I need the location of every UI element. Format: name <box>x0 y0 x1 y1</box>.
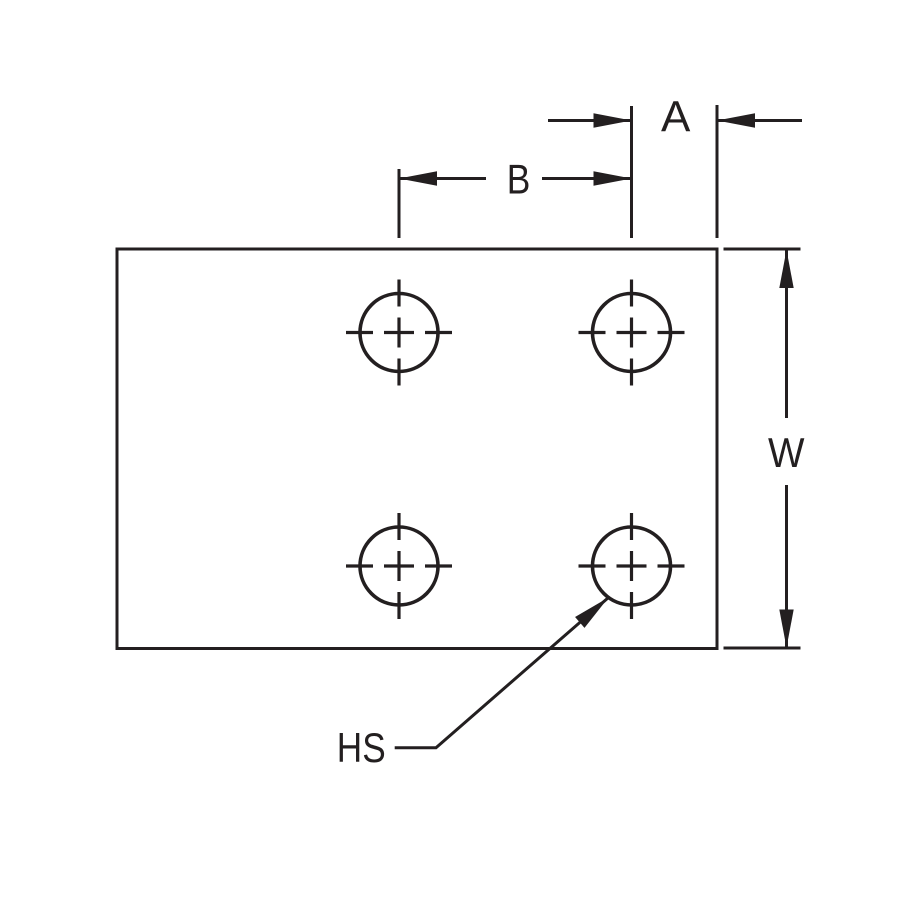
extension line at plate right edge x=717 <box>716 105 719 238</box>
dimension A left arrow <box>548 113 632 127</box>
svg-text:W: W <box>768 429 805 476</box>
dimension B left arrow <box>399 171 486 185</box>
hole bottom-left <box>346 513 452 619</box>
extension line at hole column x=399 <box>398 169 401 238</box>
leader arrowhead <box>575 592 613 628</box>
dimension W upper arrow <box>779 250 793 418</box>
hole top-right <box>579 280 685 386</box>
hole bottom-right (HS) <box>579 513 685 619</box>
svg-text:HS: HS <box>337 724 386 771</box>
hole top-left <box>346 280 452 386</box>
W extension tick top <box>724 248 801 251</box>
extension line at hole column x=631.5 <box>630 106 633 238</box>
svg-text:B: B <box>507 156 531 203</box>
W extension tick bottom <box>724 647 801 650</box>
dimension W lower arrow <box>779 485 793 648</box>
dimension B right arrow <box>542 171 632 185</box>
plate outline <box>117 249 717 649</box>
svg-text:A: A <box>661 93 691 142</box>
dimension A right arrow <box>717 113 802 127</box>
leader line from HS to bottom-right hole <box>395 598 609 748</box>
